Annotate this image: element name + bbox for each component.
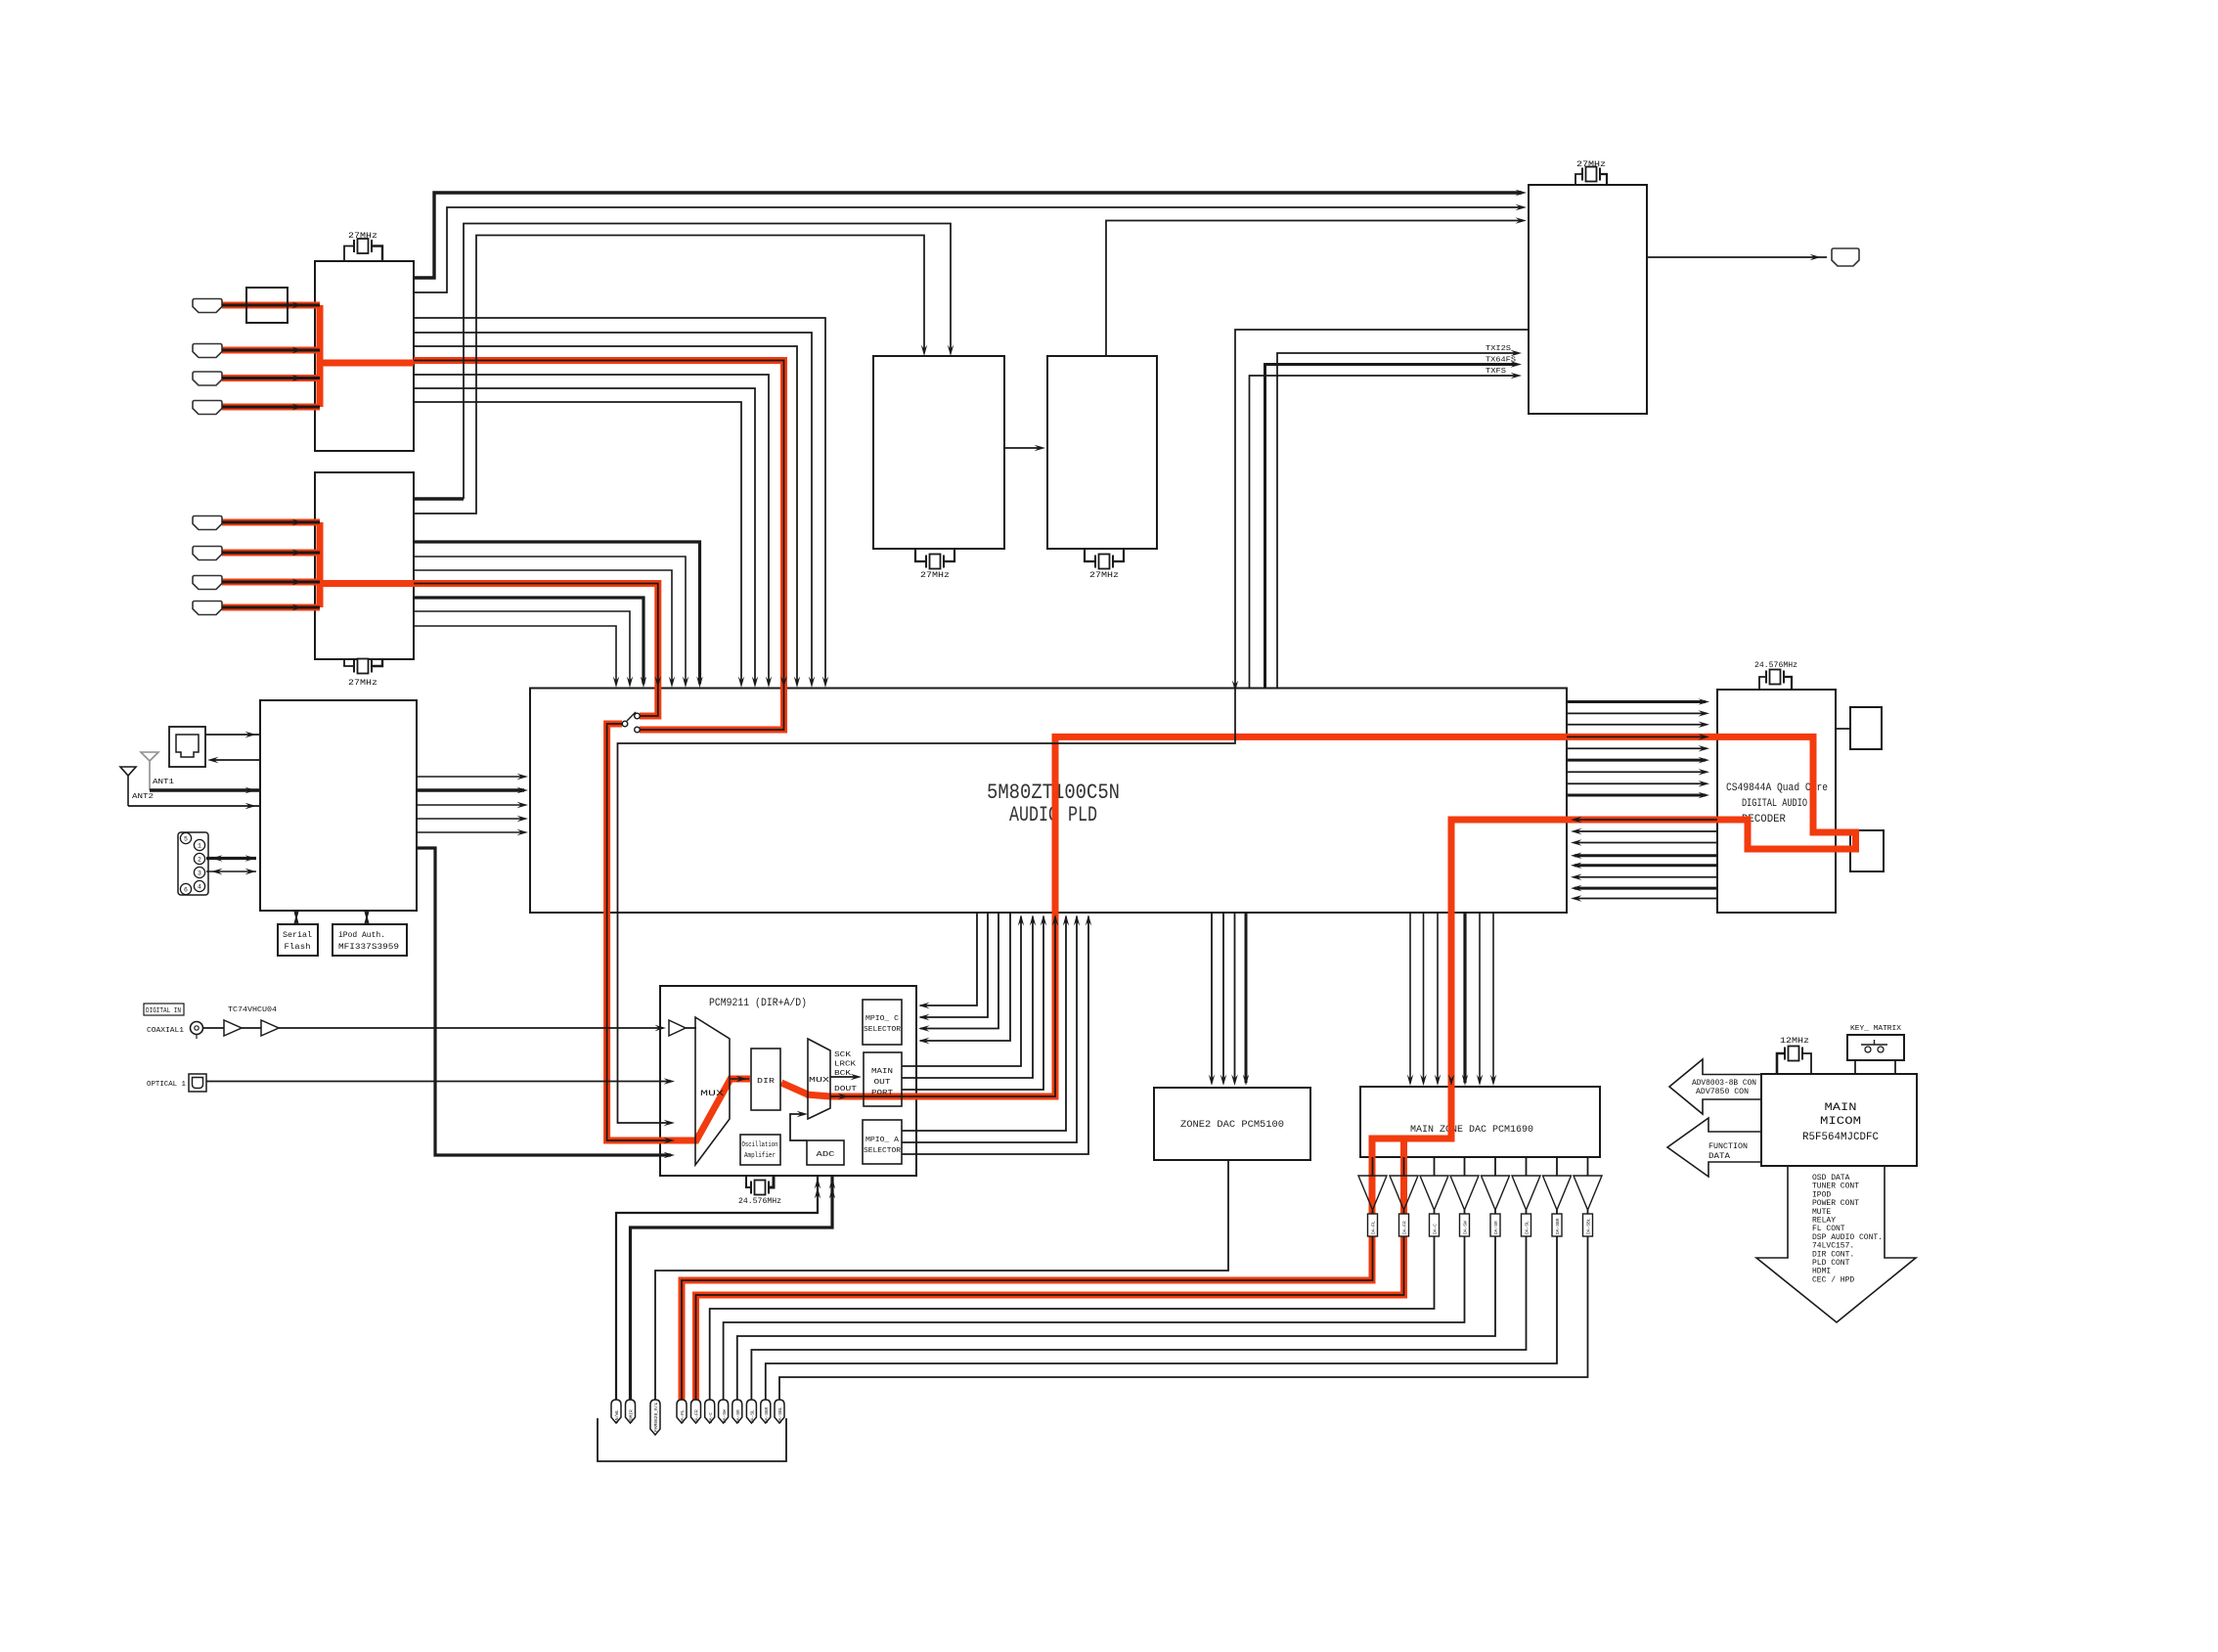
svg-text:SELECTOR: SELECTOR: [864, 1026, 902, 1034]
wire connector pin1 to ADC: [616, 1176, 818, 1406]
svg-text:24.576MHz: 24.576MHz: [1754, 661, 1797, 670]
svg-text:2: 2: [198, 856, 201, 863]
wire DIN pin3 to C (bidir): [206, 871, 256, 872]
svg-text:ANT1: ANT1: [153, 779, 174, 786]
svg-text:MAIN: MAIN: [871, 1068, 893, 1076]
box ADC: [807, 1140, 844, 1165]
svg-text:12MHz: 12MHz: [1780, 1037, 1809, 1046]
svg-text:MAIN: MAIN: [1825, 1102, 1857, 1114]
svg-text:Oscillation: Oscillation: [742, 1141, 778, 1149]
block U4 video processor D: [873, 356, 1004, 549]
wire DAC outputs through amps and beads to bottom connector: [1372, 1157, 1374, 1176]
antenna ANT1 (gray): [141, 752, 158, 790]
svg-text:OSD DATA: OSD DATA: [1812, 1174, 1850, 1183]
wire RJ45 to C: [205, 734, 260, 736]
svg-text:DA-SR: DA-SR: [735, 1409, 741, 1423]
svg-text:OPTICAL 1: OPTICAL 1: [147, 1081, 186, 1089]
crystal X1 27MHz above block A: [344, 246, 354, 262]
svg-text:MPIO_ C: MPIO_ C: [865, 1015, 899, 1023]
wire B fan into PLD top: [414, 542, 700, 684]
wire B out2 to D via top L4: [414, 236, 924, 514]
svg-text:IPOD: IPOD: [1812, 1190, 1831, 1199]
svg-text:DA-C: DA-C: [1433, 1224, 1439, 1234]
svg-text:DIR: DIR: [757, 1078, 776, 1086]
box ESD filter on HDMI1: [246, 288, 288, 323]
wire MPIO_C from PLD (4 lines): [920, 913, 977, 1005]
block U3 network/iPod module: [260, 700, 417, 911]
svg-text:POWER CONT: POWER CONT: [1812, 1199, 1859, 1208]
wire TXI2S: [1277, 353, 1516, 689]
wire A fan into PLD top: [414, 318, 825, 684]
svg-text:DA-SBR: DA-SBR: [1555, 1218, 1561, 1234]
svg-text:1: 1: [198, 842, 201, 849]
svg-text:DA-SBR: DA-SBR: [764, 1406, 770, 1423]
svg-text:DA-SR: DA-SR: [1493, 1221, 1499, 1234]
svg-text:DA-C: DA-C: [708, 1412, 714, 1423]
wire A out2 to F via top L2: [414, 207, 1522, 292]
wire red out of block A: [320, 360, 414, 367]
wire highlighted red signal path : HDMI A inputs to bus: [222, 302, 320, 309]
box U14 iPod Auth: [333, 924, 407, 956]
wire E top to F input 3: [1106, 221, 1522, 357]
svg-text:MUX: MUX: [700, 1090, 724, 1098]
svg-text:DA-SBL: DA-SBL: [777, 1406, 783, 1423]
label DIGITAL IN boxed: [144, 1004, 184, 1015]
block U11 MAIN ZONE DAC PCM1690: [1360, 1087, 1600, 1157]
wire ANT1 to C (thick): [150, 788, 260, 792]
wire red B to switch throw C1: [414, 584, 658, 717]
svg-text:DIR CONT.: DIR CONT.: [1812, 1250, 1854, 1259]
block U6 HDMI transmitter F: [1529, 185, 1647, 414]
svg-text:ADV7850 CON: ADV7850 CON: [1696, 1088, 1749, 1096]
svg-text:TXFS: TXFS: [1486, 368, 1507, 376]
svg-text:6: 6: [184, 886, 188, 893]
svg-text:FUNCTION: FUNCTION: [1708, 1142, 1748, 1151]
box ESD filter border redraw: [246, 288, 288, 323]
amplifier triangles (8): [1358, 1176, 1387, 1210]
svg-text:DA-SBL: DA-SBL: [1586, 1218, 1592, 1234]
svg-text:Serial: Serial: [283, 930, 312, 940]
connector HDMI OUT: [1832, 248, 1859, 266]
svg-text:PCM9211 (DIR+A/D): PCM9211 (DIR+A/D): [709, 998, 807, 1009]
buffer TC74VHCU04 gate 1: [224, 1020, 242, 1036]
block U10 ZONE2 DAC PCM5100: [1154, 1088, 1310, 1160]
wire MAIN OUT PORT to PLD (3 lines): [902, 916, 1021, 1066]
wire CS to box J1: [1836, 728, 1850, 730]
svg-text:ANT2: ANT2: [132, 793, 154, 801]
wire TXFS: [1250, 376, 1517, 689]
box DIR: [751, 1049, 780, 1110]
arrow red into MAIN ZONE DAC: [1448, 1075, 1454, 1087]
svg-text:TC74VHCU04: TC74VHCU04: [228, 1006, 278, 1014]
block U9 PCM9211: [660, 986, 916, 1176]
block U5 video processor E: [1047, 356, 1157, 549]
wire C to RJ45: [211, 759, 260, 761]
svg-text:KEY_ MATRIX: KEY_ MATRIX: [1850, 1025, 1902, 1033]
mux MUX2 trapezoid: [808, 1039, 830, 1119]
wire optical to PCM9211: [206, 1081, 671, 1083]
wire DOUT black core to PLD: [830, 916, 1055, 1096]
svg-text:27MHz: 27MHz: [348, 679, 377, 688]
svg-text:CEC / HPD: CEC / HPD: [1812, 1275, 1854, 1284]
antenna ANT2: [120, 767, 136, 806]
crystal X7 24.576MHz below oscillation amplifier: [746, 1176, 751, 1187]
box J1 right of decoder: [1850, 707, 1882, 749]
svg-text:DA-FR: DA-FR: [1402, 1221, 1408, 1234]
block U12 MAIN MICOM: [1761, 1074, 1917, 1166]
svg-text:ADV8003-8B CON: ADV8003-8B CON: [1692, 1079, 1756, 1088]
wire coaxial chain to PCM9211: [203, 1027, 225, 1029]
wire red core PLD to CS: [1567, 736, 1706, 737]
svg-text:HDMIR: HDMIR: [629, 1409, 635, 1423]
wire PLD to ZONE2 DAC (4 lines): [1211, 913, 1213, 1083]
wire red inside PCM9211 through MUX DIR MUX2: [671, 1079, 750, 1140]
svg-text:RELAY: RELAY: [1812, 1217, 1836, 1226]
svg-text:5: 5: [184, 835, 188, 842]
svg-text:27MHz: 27MHz: [1089, 571, 1119, 580]
svg-text:DA-FR: DA-FR: [694, 1409, 700, 1423]
wire ZONE2 DAC output to connector pin3: [655, 1160, 1228, 1406]
wire red inside MAIN ZONE DAC to FL FR outputs: [682, 1083, 1451, 1406]
svg-text:SCK: SCK: [834, 1051, 852, 1059]
wire C to Serial Flash (bidir): [295, 911, 297, 924]
crystal X4 27MHz below block E: [1085, 549, 1094, 561]
wire D to E: [1004, 447, 1041, 449]
svg-text:TX64FS: TX64FS: [1486, 357, 1517, 365]
wire CS49844A to PLD (8 lines): [1575, 830, 1717, 832]
wire B out1 to D via top L3: [414, 497, 464, 500]
svg-text:3: 3: [198, 870, 201, 876]
wire red bus in block B: [317, 522, 324, 607]
svg-text:HDMI: HDMI: [1812, 1268, 1831, 1276]
svg-text:DA-FL: DA-FL: [680, 1409, 686, 1423]
svg-text:AN/WL: AN/WL: [614, 1409, 620, 1423]
svg-text:R5F564MJCDFC: R5F564MJCDFC: [1802, 1132, 1879, 1143]
wire C to PLD (5 lines): [417, 776, 524, 778]
wire MPIO_A to PLD (3 lines): [902, 916, 1066, 1131]
svg-text:Amplifier: Amplifier: [744, 1152, 776, 1160]
box KEY_MATRIX: [1847, 1035, 1904, 1060]
svg-text:MFI337S3959: MFI337S3959: [338, 942, 399, 952]
wire F to HDMI OUT connector: [1647, 256, 1827, 258]
svg-text:MICOM: MICOM: [1820, 1116, 1861, 1128]
wire red switch C2 to PCM9211: [607, 724, 671, 1140]
wire ADC to MUX2: [790, 1114, 807, 1140]
wire HDMI stubs into B with arrows: [222, 521, 320, 524]
switch SW1 input selector inside PLD: [627, 712, 636, 721]
crystal X5 27MHz above block F: [1575, 174, 1582, 185]
svg-text:DIGITAL AUDIO: DIGITAL AUDIO: [1742, 798, 1807, 810]
block U8 CS49844A decoder: [1717, 690, 1836, 913]
svg-text:DA-SL: DA-SL: [750, 1409, 756, 1423]
svg-text:DSP AUDIO CONT.: DSP AUDIO CONT.: [1812, 1233, 1883, 1242]
svg-text:27MHz: 27MHz: [920, 571, 950, 580]
svg-text:FL CONT: FL CONT: [1812, 1225, 1845, 1233]
arrow outline big control outputs down: [1756, 1166, 1916, 1322]
svg-text:COAXIAL1: COAXIAL1: [147, 1027, 185, 1035]
connector RJ45 jack: [169, 727, 205, 767]
svg-text:DA-SW: DA-SW: [1463, 1221, 1469, 1234]
box Oscillation Amplifier: [740, 1135, 780, 1165]
wire A red fan core: [414, 361, 784, 731]
crystal X2 27MHz below block B: [344, 659, 354, 666]
svg-text:iPod Auth.: iPod Auth.: [338, 930, 385, 940]
wire connector pin2 to ADC (thick): [631, 1176, 833, 1406]
mux MUX1 trapezoid: [695, 1017, 730, 1165]
svg-text:MUTE: MUTE: [1812, 1208, 1831, 1217]
bracket below connector pins: [598, 1418, 786, 1461]
wire PLD to PCM9211 via F (F input 4): [618, 330, 1530, 1123]
svg-text:Flash: Flash: [285, 942, 311, 952]
wire PLD to MAIN ZONE DAC (6 black lines): [1409, 913, 1411, 1083]
ferrite bead boxes with labels: [1368, 1214, 1378, 1236]
box MAIN OUT PORT: [864, 1052, 902, 1106]
svg-text:MAIN ZONE DAC PCM1690: MAIN ZONE DAC PCM1690: [1410, 1124, 1533, 1136]
wire red bus in block A: [317, 305, 324, 407]
svg-text:DIGITAL IN: DIGITAL IN: [146, 1007, 181, 1015]
wire arrow into DIR: [731, 1078, 749, 1080]
svg-text:MUX: MUX: [809, 1077, 830, 1085]
crystal X3 27MHz below block D: [915, 549, 925, 561]
connector DIN with pins: [178, 832, 208, 895]
wire ANT2 to C: [128, 805, 260, 807]
arrow outline ADV8003/ADV7850 CON: [1669, 1059, 1761, 1114]
wire red HDMI B inputs to bus: [222, 519, 320, 526]
wire red core CS to PLD: [1575, 819, 1717, 821]
wire MUX2 clocks to MAIN OUT PORT: [830, 1076, 857, 1078]
box J2 right of decoder: [1850, 830, 1884, 871]
wire HDMI stubs into A with arrows: [222, 304, 320, 307]
wire C to PCM9211 (thick L): [417, 848, 671, 1155]
svg-text:DOUT: DOUT: [834, 1086, 857, 1094]
svg-text:PAM8628_R/L: PAM8628_R/L: [653, 1402, 659, 1432]
svg-text:74LVC157.: 74LVC157.: [1812, 1242, 1854, 1251]
svg-text:ZONE2 DAC PCM5100: ZONE2 DAC PCM5100: [1180, 1119, 1284, 1131]
svg-text:ADC: ADC: [817, 1151, 836, 1159]
crystal X6 24.576MHz above CS decoder: [1759, 677, 1766, 690]
connector bottom output pins: [611, 1400, 621, 1423]
wire KEY_MATRIX to MICOM: [1854, 1060, 1856, 1074]
svg-text:PLD CONT: PLD CONT: [1812, 1259, 1850, 1268]
svg-text:SELECTOR: SELECTOR: [864, 1147, 902, 1155]
svg-text:LRCK: LRCK: [834, 1061, 857, 1069]
svg-text:TXI2S: TXI2S: [1486, 345, 1512, 353]
svg-text:DA-FL: DA-FL: [1371, 1221, 1377, 1234]
svg-text:DA-SL: DA-SL: [1525, 1221, 1530, 1234]
wire A out1 to F via top L1: [414, 193, 1522, 278]
block U1 HDMI switch A: [315, 261, 414, 451]
block U7 5M80ZT100C5N AUDIO PLD: [530, 689, 1567, 914]
buffer input triangle in PCM9211: [669, 1020, 686, 1036]
svg-text:DA-SW: DA-SW: [722, 1409, 728, 1423]
svg-text:DATA: DATA: [1708, 1152, 1730, 1161]
wire red out of block B: [320, 580, 414, 587]
box MPIO_A SELECTOR: [863, 1120, 902, 1164]
box U13 Serial Flash: [278, 924, 318, 956]
wire TX64FS: [1265, 365, 1517, 689]
block U2 HDMI switch B: [315, 472, 414, 659]
wire black core switch C2 to PCM9211: [607, 724, 671, 1140]
connector RCA coaxial: [191, 1022, 203, 1035]
svg-text:4: 4: [198, 883, 201, 890]
wire C to iPod Auth (bidir): [366, 911, 368, 924]
svg-text:24.576MHz: 24.576MHz: [738, 1197, 781, 1206]
svg-text:27MHz: 27MHz: [348, 232, 377, 241]
svg-text:OUT: OUT: [874, 1079, 891, 1087]
connector HDMI IN 5-8 (block B): [193, 516, 222, 530]
wire DIN pin2 to C (bidir thick): [206, 857, 256, 860]
wire red A to switch throw C3: [414, 361, 784, 731]
connector HDMI IN 1-4 (block A): [193, 299, 222, 313]
svg-text:TUNER CONT: TUNER CONT: [1812, 1183, 1859, 1191]
svg-text:27MHz: 27MHz: [1576, 160, 1606, 169]
arrow outline FUNCTION DATA: [1667, 1118, 1761, 1177]
wire PLD to CS49844A (9 lines): [1567, 700, 1706, 703]
crystal X8 12MHz above MICOM: [1777, 1053, 1785, 1074]
wire red DOUT to PLD to CS decoder loop to MAIN DAC: [806, 737, 1856, 1096]
buffer TC74VHCU04 gate 2: [261, 1020, 279, 1036]
box MPIO_C SELECTOR: [863, 1000, 902, 1045]
wire B red fan core: [414, 584, 658, 717]
svg-text:MPIO_ A: MPIO_ A: [865, 1137, 900, 1144]
